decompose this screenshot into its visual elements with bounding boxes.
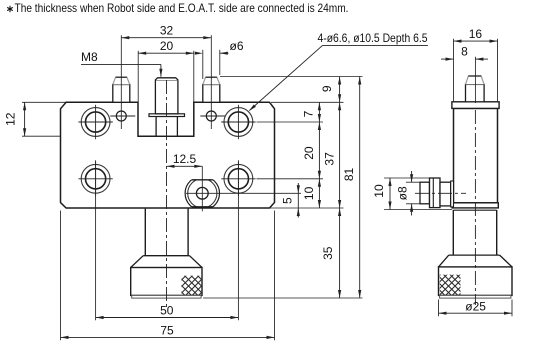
- side view stud body: [466, 84, 485, 101]
- extension lines for dimension o8: [406, 182, 420, 204]
- air port boss (front): [185, 176, 219, 210]
- svg-text:ø8: ø8: [395, 186, 409, 200]
- extension line, body right edge up: [497, 39, 499, 101]
- svg-text:The thickness when Robot side: The thickness when Robot side and E.O.A.…: [15, 1, 349, 15]
- extension line at plate top level: [271, 101, 344, 103]
- svg-text:50: 50: [160, 303, 174, 317]
- svg-text:16: 16: [469, 27, 483, 41]
- svg-text:ø25: ø25: [465, 300, 486, 314]
- air fitting collar: [430, 178, 441, 208]
- air fitting washer: [451, 181, 454, 207]
- dimension 81 (overall height): [342, 77, 361, 299]
- side view stud chamfered tip: [466, 76, 485, 84]
- M8 stud flange: [149, 114, 185, 117]
- knob bottom rim (front): [132, 295, 201, 298]
- knurl hatch (side): [440, 275, 461, 297]
- extension lines for dimension 12: [22, 102, 66, 136]
- dimension 20 (notch width): [138, 39, 194, 55]
- pin hole circle, left (o6): [110, 111, 135, 121]
- counterbored hole, upper-right: [221, 105, 255, 139]
- dimension 32: [121, 24, 211, 40]
- extension line, right hole column: [237, 160, 239, 320]
- dimension 50 (hole spacing): [96, 303, 239, 319]
- svg-text:75: 75: [160, 323, 174, 337]
- svg-text:81: 81: [342, 168, 356, 182]
- knob body (side): [439, 267, 513, 296]
- extension line at lower hole level: [257, 178, 324, 180]
- label M8 with leader: [81, 50, 163, 77]
- dimension o6 (pin diameter): [195, 39, 244, 55]
- air fitting nipple: [420, 182, 430, 204]
- label 4-o6.6, o10.5 Depth 6.5 with leader: [249, 31, 428, 111]
- knob bottom rim (side): [440, 295, 511, 298]
- counterbored hole, lower-right: [221, 162, 255, 196]
- svg-text:10: 10: [372, 184, 386, 198]
- knurl hatch (front): [181, 276, 201, 297]
- dimension 12.5: [167, 152, 203, 168]
- E.O.A.T. plate body (front view): [61, 102, 275, 208]
- svg-text:20: 20: [160, 39, 174, 53]
- extension line, plate left edge: [60, 211, 62, 341]
- left locating pin chamfered tip: [113, 77, 130, 84]
- svg-text:35: 35: [321, 246, 335, 260]
- extension line, body left edge up: [453, 39, 455, 101]
- part centerline (side): [474, 110, 476, 305]
- counterbored hole, upper-left: [78, 105, 112, 139]
- dimension o25 (knob diameter): [439, 300, 513, 315]
- extension line, right pin centerline: [210, 35, 212, 129]
- cone shoulder (side): [439, 255, 513, 267]
- counterbored hole, lower-left: [78, 162, 112, 196]
- dimension 12 (block height): [4, 102, 27, 136]
- svg-text:9: 9: [320, 85, 334, 92]
- extension line at knob bottom level: [203, 297, 363, 299]
- cone shoulder (front): [131, 256, 202, 268]
- extension line, notch left edge: [137, 51, 139, 102]
- extension line at upper hole level: [257, 121, 324, 123]
- right locating pin chamfered tip: [203, 77, 220, 84]
- part centerline (front): [166, 80, 168, 310]
- svg-text:4-ø6.6, ø10.5 Depth 6.5: 4-ø6.6, ø10.5 Depth 6.5: [318, 31, 428, 45]
- dimension 10 (fitting height): [372, 178, 392, 210]
- air fitting body: [440, 182, 451, 206]
- M8 stud shank (below flange): [156, 116, 177, 136]
- dimension o8 (nipple diameter): [395, 171, 413, 216]
- side view bottom flange plate: [452, 203, 498, 208]
- side view body: [454, 108, 498, 202]
- svg-text:37: 37: [322, 152, 336, 166]
- dimension 5 (boss center to plate bottom): [281, 183, 300, 218]
- extension line, side stud centerline: [474, 57, 476, 103]
- extension line, left pin centerline: [120, 35, 122, 129]
- extension line, plate right edge: [274, 211, 276, 341]
- svg-text:12.5: 12.5: [173, 152, 197, 166]
- extension line at boss center level: [186, 192, 301, 194]
- extension line at plate bottom level: [269, 207, 344, 209]
- dimension chain 7 / 20 / 10: [302, 102, 321, 208]
- extension line, right pin right edge: [219, 50, 221, 75]
- svg-text:32: 32: [160, 24, 174, 38]
- extension lines for dimension 10 (fitting): [384, 178, 452, 210]
- left locating pin body: [113, 85, 130, 103]
- extension line, boss centerline: [201, 166, 203, 211]
- dimension chain 9 / 37 / 35: [320, 77, 341, 299]
- dimension 8 (stud offset): [441, 45, 488, 61]
- shaft (front): [145, 209, 188, 256]
- extension lines for dimension o25: [439, 300, 513, 317]
- pin hole circle, right (o6): [200, 111, 225, 121]
- svg-text:10: 10: [302, 186, 316, 200]
- knob body (front): [131, 268, 202, 296]
- svg-text:7: 7: [302, 110, 316, 117]
- shaft (side): [453, 210, 496, 255]
- air fitting centerline: [415, 192, 466, 194]
- M8 stud top chamfer accents: [156, 80, 177, 82]
- svg-text:ø6: ø6: [230, 39, 244, 53]
- extension line, right pin left edge: [202, 50, 204, 79]
- svg-text:5: 5: [281, 197, 295, 204]
- extension line at stud top level: [220, 76, 363, 78]
- svg-text:M8: M8: [81, 50, 98, 64]
- dimension 75 (plate width): [61, 323, 275, 339]
- svg-text:8: 8: [461, 45, 468, 59]
- right locating pin body: [203, 85, 220, 103]
- dimension 16 (body width): [454, 27, 498, 43]
- extension line, notch right edge: [193, 51, 195, 102]
- extension line, left hole column: [95, 160, 97, 320]
- svg-text:20: 20: [302, 146, 316, 160]
- svg-text:12: 12: [4, 112, 18, 126]
- side view top flange plate: [452, 102, 499, 109]
- note asterisk mark: [7, 6, 13, 12]
- M8 stud body: [155, 78, 178, 114]
